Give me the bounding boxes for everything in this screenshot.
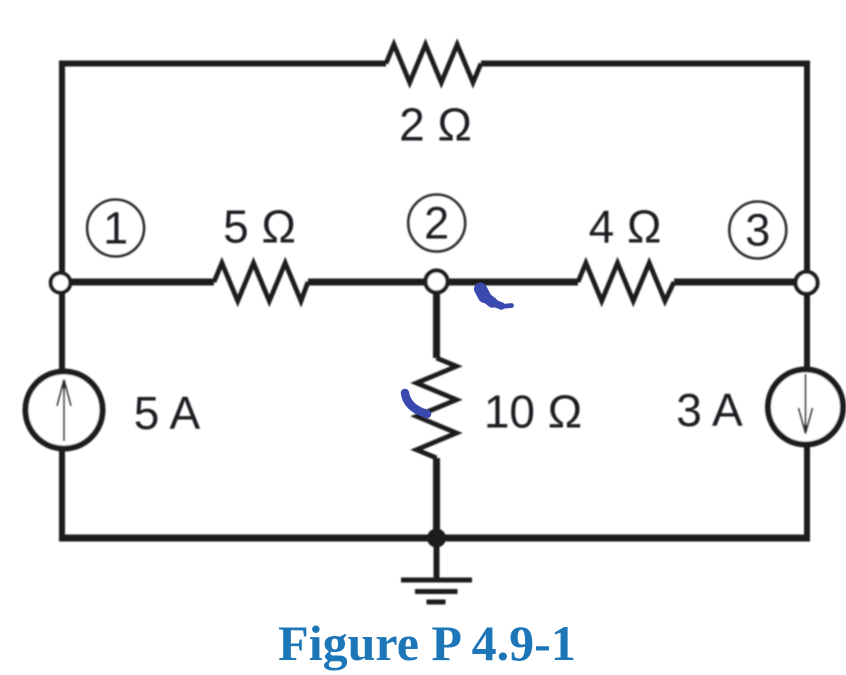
svg-text:5 A: 5 A	[134, 387, 201, 439]
current source I1 5A circle	[26, 372, 103, 449]
current source I2 arrow down	[799, 374, 813, 434]
pen mark near node 2	[481, 289, 512, 307]
wire bottom run	[59, 535, 810, 542]
svg-text:3: 3	[745, 205, 770, 256]
wire left lower (node1 down to bottom)	[59, 282, 65, 538]
wire top-right loop (top run from R2 + right vertical)	[481, 64, 807, 286]
ground stub wire	[434, 538, 440, 580]
svg-text:3 A: 3 A	[676, 384, 743, 436]
ground symbol bars	[401, 580, 472, 602]
wire top-left loop (left vertical + top run to R2)	[62, 64, 386, 286]
node label circle 1	[87, 200, 144, 257]
resistor R1 5ohm zigzag	[214, 263, 308, 301]
svg-text:1: 1	[103, 203, 128, 254]
node 2 open terminal circle	[426, 271, 448, 293]
svg-text:2: 2	[424, 198, 449, 249]
resistor R3 4ohm zigzag	[578, 263, 674, 301]
resistor R2 10ohm vertical zigzag	[417, 358, 457, 458]
wire middle R5 to node2 to R4	[308, 279, 578, 286]
svg-text:5 Ω: 5 Ω	[223, 201, 296, 253]
wire middle R4 to node3	[674, 279, 807, 286]
svg-text:2 Ω: 2 Ω	[399, 99, 472, 151]
current source I2 3A circle	[768, 370, 843, 445]
svg-text:Figure P 4.9-1: Figure P 4.9-1	[278, 615, 576, 671]
node 3 open terminal circle	[796, 272, 818, 294]
svg-text:10 Ω: 10 Ω	[484, 386, 582, 438]
wire center vertical R10 to bottom	[433, 458, 440, 538]
resistor R top 2ohm zigzag	[386, 45, 481, 83]
current source I1 arrow up	[57, 380, 71, 442]
node 1 open terminal circle	[51, 273, 71, 293]
wire middle node1 to R5	[62, 279, 214, 286]
junction dot at ground node	[427, 529, 446, 548]
wire center vertical node2 to R10	[433, 282, 440, 358]
node label circle 2	[408, 195, 465, 252]
node label circle 3	[729, 202, 786, 259]
pen mark on 10 ohm resistor	[405, 393, 427, 414]
svg-text:4 Ω: 4 Ω	[589, 201, 662, 253]
wire right lower (node3 down to bottom)	[804, 282, 810, 538]
